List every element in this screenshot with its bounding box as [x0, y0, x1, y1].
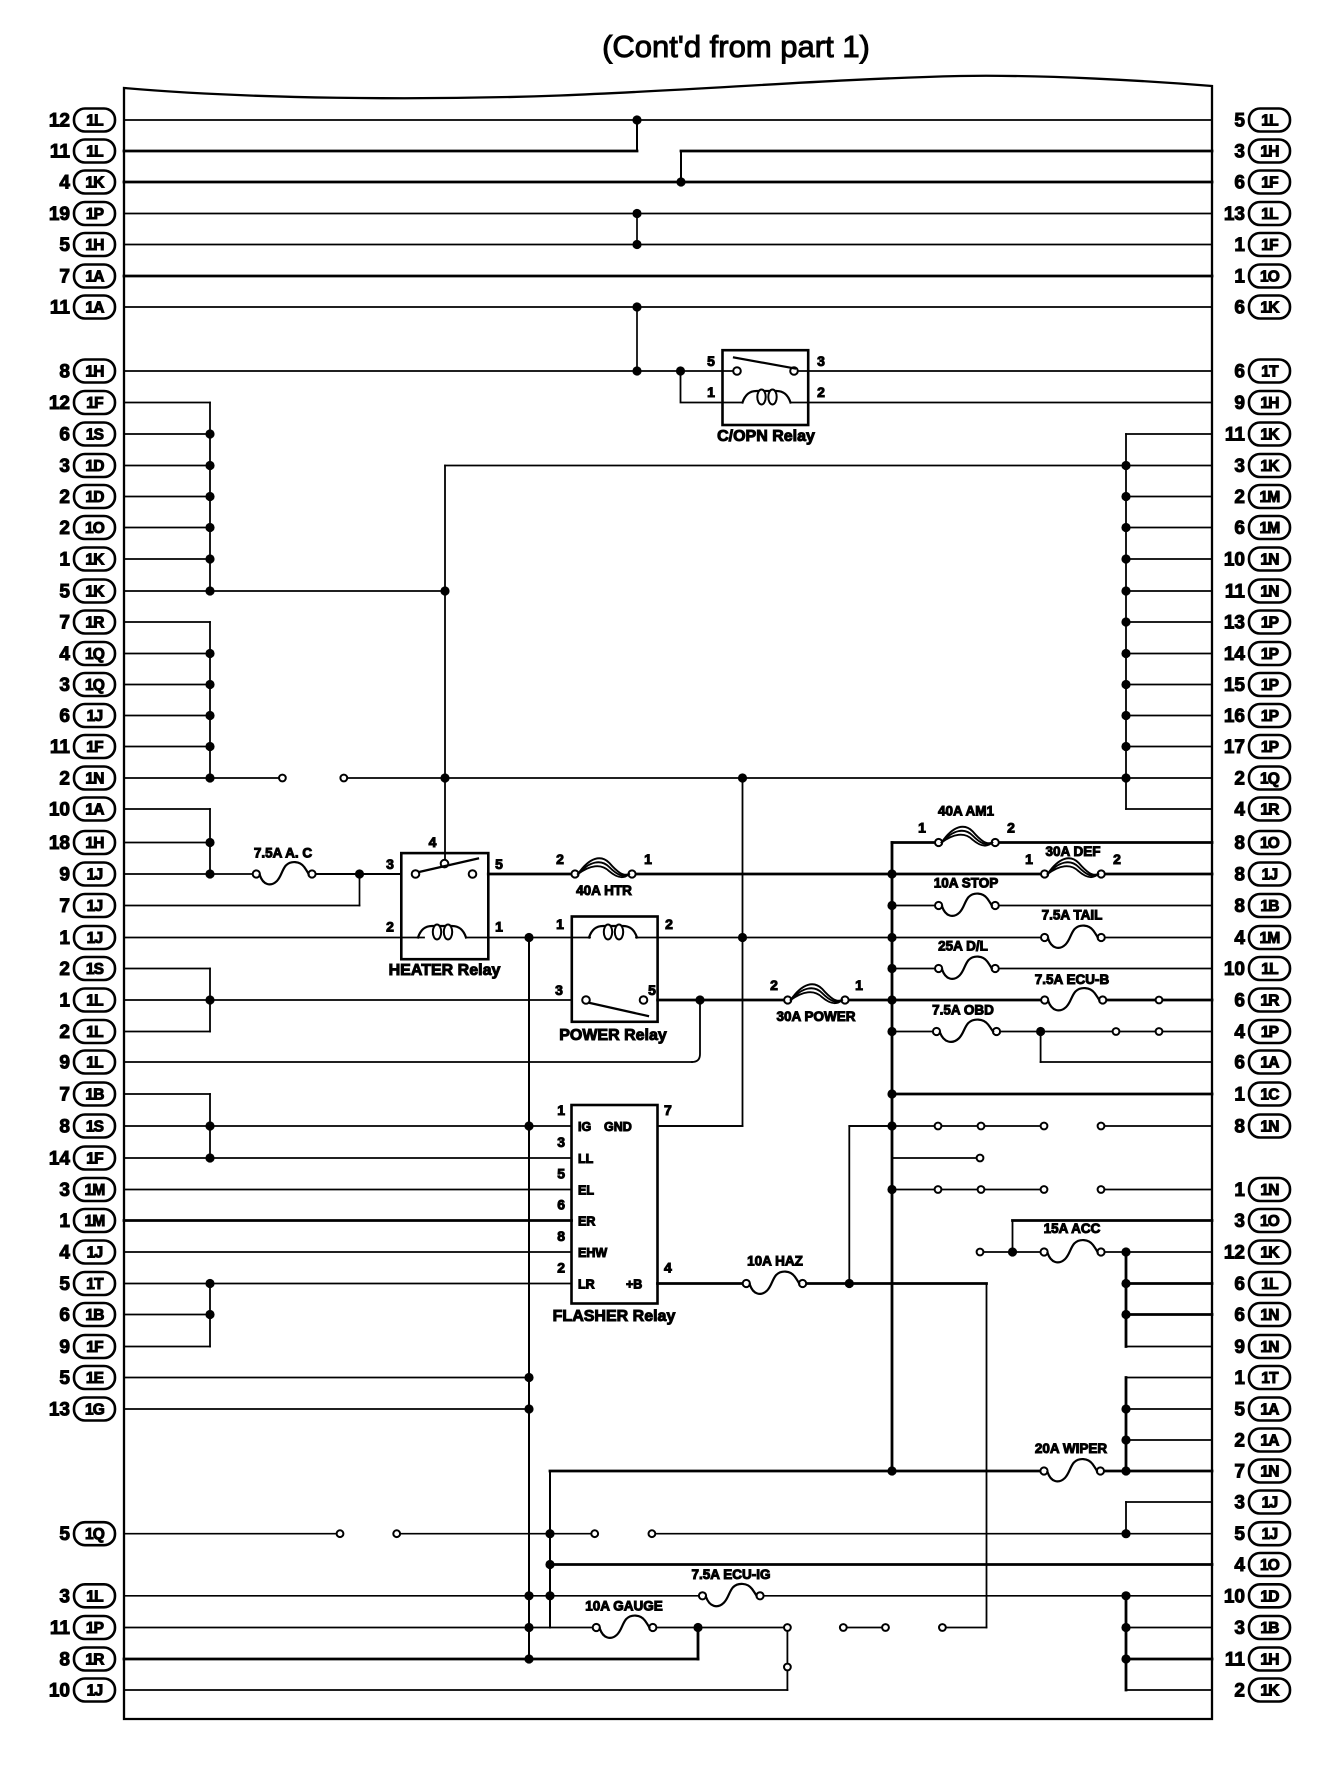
- wire riser 19 1P/5 1H: [636, 214, 638, 245]
- svg-text:1L: 1L: [86, 1024, 103, 1041]
- node 2 1K (right): [1234, 1679, 1290, 1702]
- svg-text:10: 10: [49, 800, 70, 821]
- svg-text:1F: 1F: [86, 739, 103, 756]
- svg-text:1R: 1R: [85, 1652, 104, 1669]
- wire 1 1M to FLASHER pin 6: [124, 1219, 572, 1222]
- svg-text:3: 3: [817, 353, 825, 369]
- connector terminal 6 1R inline: [1156, 997, 1163, 1004]
- svg-text:1M: 1M: [85, 1213, 105, 1230]
- node 13 1G (left): [49, 1398, 115, 1421]
- junction bus210 r37: [205, 1279, 214, 1288]
- connector terminal 1 1N d: [1098, 1186, 1105, 1193]
- wire 19 1P to 13 1L: [124, 213, 1212, 215]
- junction bus892 r27: [887, 964, 896, 973]
- svg-text:1S: 1S: [86, 427, 104, 444]
- junction bus529 r49: [524, 1654, 533, 1663]
- node 5 1Q (left): [59, 1522, 115, 1545]
- svg-text:3: 3: [59, 1586, 70, 1607]
- wire 10 1A to bus 210: [124, 808, 210, 810]
- junction bus210 r20: [205, 742, 214, 751]
- junction bus210 r12: [205, 492, 214, 501]
- wire right bus rows 44-45: [1125, 1502, 1127, 1534]
- junction bus892 r34: [887, 1185, 896, 1194]
- node 6 1M (right): [1234, 516, 1290, 539]
- wire riser 12 1L/11 1L: [636, 120, 638, 151]
- wire 10A STOP feed: [892, 905, 939, 907]
- wire 1 1K to bus 210: [124, 558, 210, 560]
- wire 11 1F to bus 210: [124, 746, 210, 748]
- svg-text:1L: 1L: [86, 993, 103, 1010]
- svg-text:1L: 1L: [1261, 206, 1278, 223]
- wire 20A WIPER to 7 1N: [1100, 1470, 1212, 1473]
- wire 3 1K long wire: [445, 465, 1212, 467]
- junction 19 1P riser: [632, 209, 641, 218]
- fuse 10A HAZ: [743, 1254, 807, 1294]
- svg-text:8: 8: [1234, 1117, 1245, 1138]
- connector terminal 1 1N b: [978, 1186, 985, 1193]
- wire 3 1O right piece: [1013, 1219, 1213, 1222]
- node 11 1F (left): [50, 735, 115, 758]
- junction busR r13: [1121, 523, 1130, 532]
- connector terminal 8 1N d: [1098, 1123, 1105, 1130]
- node 7 1A (left): [59, 265, 115, 288]
- node 1 1L (left): [59, 989, 115, 1012]
- node 10 1D (right): [1224, 1584, 1290, 1607]
- node 3 1Q (left): [59, 673, 115, 696]
- wire C/OPN pin 3 to 6 1T: [808, 370, 1212, 372]
- wire riser 3 1O to ACC row: [1012, 1221, 1014, 1253]
- node 7 1J (left): [59, 894, 115, 917]
- wire 7 1B to bus 210: [124, 1093, 210, 1095]
- junction 9 1J/7 1J: [355, 869, 364, 878]
- svg-text:1T: 1T: [1261, 364, 1279, 381]
- junction bus210 r21: [205, 773, 214, 782]
- svg-text:9: 9: [59, 1053, 70, 1074]
- svg-text:GND: GND: [604, 1120, 632, 1134]
- svg-text:8: 8: [59, 362, 70, 383]
- svg-text:1J: 1J: [87, 898, 103, 915]
- node 8 1O (right): [1234, 831, 1290, 854]
- node 6 1F (right): [1234, 171, 1290, 194]
- wire 1 1T right piece: [1126, 1377, 1212, 1379]
- connector terminal 5 1Q a: [337, 1530, 344, 1537]
- svg-text:5: 5: [1234, 111, 1245, 132]
- wire 5 1T to FLASHER pin 2: [124, 1283, 572, 1285]
- wire riser 11 1A/8 1H: [636, 307, 638, 371]
- node 10 1A (left): [49, 798, 115, 821]
- wire 2 1A right piece: [1126, 1439, 1212, 1441]
- node 1 1T (right): [1234, 1366, 1290, 1389]
- fusible link 30A DEF: [1025, 844, 1121, 878]
- wire bus 550 WIPER to GAUGE: [549, 1471, 551, 1628]
- svg-text:1H: 1H: [1260, 144, 1279, 161]
- svg-text:3: 3: [59, 675, 70, 696]
- svg-text:1: 1: [495, 919, 503, 935]
- junction bus529 r40: [524, 1373, 533, 1382]
- fuse 10A GAUGE: [585, 1599, 663, 1638]
- wire 7.5A TAIL to 4 1M: [1101, 937, 1212, 939]
- junction bus892 r29: [887, 1027, 896, 1036]
- svg-text:4: 4: [664, 1260, 672, 1276]
- svg-text:1: 1: [1025, 851, 1033, 867]
- svg-text:4: 4: [59, 1243, 70, 1264]
- junction bus529 r26: [524, 933, 533, 942]
- wire 5 1K to bus 445: [124, 590, 445, 592]
- node 13 1P (right): [1224, 611, 1290, 634]
- junction bus892 r31: [887, 1089, 896, 1098]
- junction bus892 r28: [887, 995, 896, 1004]
- wire 8 1H to C/OPN pin 5: [124, 370, 723, 372]
- svg-text:C/OPN Relay: C/OPN Relay: [717, 428, 815, 445]
- node 10 1L (right): [1224, 957, 1290, 980]
- svg-text:2: 2: [59, 1022, 70, 1043]
- svg-text:18: 18: [49, 833, 70, 854]
- wire bus 210 seg rows 9-15: [209, 403, 211, 592]
- node 4 1Q (left): [59, 642, 115, 665]
- wire 1 1L to POWER pin 3: [124, 999, 572, 1001]
- svg-text:19: 19: [49, 204, 70, 225]
- node 2 1O (left): [59, 516, 115, 539]
- wire 6 1A right piece: [1041, 1061, 1212, 1063]
- wire 6 1M right piece: [1126, 527, 1212, 529]
- wire 7.5A OBD feed: [892, 1031, 937, 1033]
- node 19 1P (left): [49, 202, 115, 225]
- node 4 1J (left): [59, 1241, 115, 1264]
- svg-text:FLASHER Relay: FLASHER Relay: [553, 1308, 676, 1325]
- svg-text:1K: 1K: [1260, 1683, 1280, 1700]
- svg-text:1D: 1D: [85, 489, 104, 506]
- node 16 1P (right): [1224, 704, 1290, 727]
- wire connector 942 to corner 986: [942, 1627, 986, 1629]
- svg-text:10: 10: [49, 1681, 70, 1702]
- wire 5 1E to bus 529: [124, 1377, 529, 1379]
- wire HEATER pin 1 to POWER pin 1: [488, 937, 572, 939]
- svg-text:1A: 1A: [1260, 1433, 1279, 1450]
- svg-text:1: 1: [918, 820, 926, 836]
- junction bus892 r32: [887, 1121, 896, 1130]
- wire fuse A.C to HEATER pin 3: [312, 873, 401, 875]
- wire 9 1F to bus 210: [124, 1346, 210, 1348]
- wire FLASHER GND pin 7 out: [658, 1125, 743, 1127]
- svg-text:1P: 1P: [1261, 677, 1279, 694]
- wire 7 1A to 1 1O: [124, 275, 1212, 278]
- junction busR r21: [1121, 773, 1130, 782]
- node 7 1R (left): [59, 611, 115, 634]
- svg-text:1: 1: [1234, 1085, 1245, 1106]
- wire right bus rows 10-22: [1125, 434, 1127, 809]
- svg-text:7.5A OBD: 7.5A OBD: [932, 1003, 994, 1018]
- svg-text:1F: 1F: [1261, 237, 1278, 254]
- node 12 1L (left): [49, 109, 115, 132]
- node 11 1P (left): [50, 1616, 115, 1639]
- svg-text:1L: 1L: [86, 1055, 103, 1072]
- svg-text:30A DEF: 30A DEF: [1045, 844, 1100, 859]
- svg-text:1P: 1P: [1261, 1024, 1279, 1041]
- svg-text:11: 11: [50, 298, 71, 319]
- junction busR r38: [1121, 1310, 1130, 1319]
- wire 13 1G to bus 529: [124, 1408, 529, 1410]
- svg-text:10A HAZ: 10A HAZ: [747, 1254, 803, 1269]
- connector terminal GAUGE riser top: [784, 1624, 791, 1631]
- node 13 1L (right): [1224, 202, 1290, 225]
- svg-text:1P: 1P: [1261, 615, 1279, 632]
- node 5 1J (right): [1234, 1522, 1290, 1545]
- wire POWER pin 5 drop to 9 1L: [692, 1000, 700, 1062]
- node 3 1K (right): [1234, 454, 1290, 477]
- wire connector to 6 1R: [1159, 999, 1212, 1002]
- wire 12 1L to 5 1L: [124, 119, 1212, 121]
- wire 11 1P to 10A GAUGE: [124, 1627, 596, 1629]
- wire 2 1M right piece: [1126, 496, 1212, 498]
- svg-text:13: 13: [1224, 204, 1245, 225]
- node 6 1K (right): [1234, 296, 1290, 319]
- junction bus529 r47: [524, 1591, 533, 1600]
- node 15 1P (right): [1224, 673, 1290, 696]
- svg-text:3: 3: [1234, 456, 1245, 477]
- svg-text:2: 2: [1234, 1431, 1245, 1452]
- junction busR r15: [1121, 586, 1130, 595]
- node 1 1F (right): [1234, 233, 1290, 256]
- svg-text:EL: EL: [578, 1184, 594, 1198]
- connector terminal 3 1B pair b: [882, 1624, 889, 1631]
- svg-text:1O: 1O: [1260, 269, 1280, 286]
- junction bus550 r46: [545, 1560, 554, 1569]
- wire 9 1L to corner 700: [124, 1061, 692, 1063]
- svg-text:3: 3: [557, 1134, 565, 1150]
- node 2 1N (left): [59, 767, 115, 790]
- wire POWER pin 2 out: [658, 937, 892, 939]
- node 7 1B (left): [59, 1083, 115, 1106]
- svg-text:1H: 1H: [1260, 1652, 1279, 1669]
- wire 11 1K right piece: [1126, 433, 1212, 435]
- svg-text:1L: 1L: [1261, 113, 1278, 130]
- wire 25A D/L feed: [892, 968, 939, 970]
- svg-text:10A GAUGE: 10A GAUGE: [585, 1599, 663, 1614]
- node 8 1H (left): [59, 360, 115, 383]
- wire connector 652 to 5 1J: [652, 1533, 1212, 1535]
- wire 5 1A right piece: [1126, 1408, 1212, 1410]
- coil of POWER relay: [589, 926, 637, 938]
- wire riser 9 1J/7 1J: [359, 874, 361, 906]
- node 4 1R (right): [1234, 798, 1290, 821]
- wire 6 1S to bus 210: [124, 433, 210, 435]
- wire 2 1K right piece: [1126, 1689, 1212, 1691]
- wire 3 1Q to bus 210: [124, 684, 210, 686]
- svg-text:1R: 1R: [1260, 802, 1279, 819]
- node 3 1B (right): [1234, 1616, 1290, 1639]
- svg-text:40A AM1: 40A AM1: [938, 804, 995, 819]
- wire 40A HTR to 30A DEF: [632, 873, 1045, 876]
- svg-text:8: 8: [1234, 833, 1245, 854]
- svg-text:15: 15: [1224, 675, 1246, 696]
- wire 4 1J to FLASHER pin 8: [124, 1251, 572, 1253]
- node 5 1H (left): [59, 233, 115, 256]
- svg-text:11: 11: [50, 142, 71, 163]
- wire 5 1H to 1 1F: [124, 244, 1212, 246]
- wire 20A WIPER run: [550, 1470, 1044, 1473]
- junction bus210 r19: [205, 711, 214, 720]
- node 11 1A (left): [50, 296, 115, 319]
- svg-text:16: 16: [1224, 706, 1245, 727]
- node 6 1B (left): [59, 1303, 115, 1326]
- node 6 1L (right): [1234, 1272, 1290, 1295]
- svg-text:1J: 1J: [1262, 1495, 1278, 1512]
- junction bus210 r32: [205, 1121, 214, 1130]
- wire 11 1L to junction 637: [124, 150, 637, 153]
- svg-text:1H: 1H: [85, 364, 104, 381]
- node 12 1K (right): [1224, 1241, 1290, 1264]
- svg-text:1K: 1K: [85, 584, 105, 601]
- svg-text:1B: 1B: [1260, 898, 1279, 915]
- junction bus210 r15: [205, 586, 214, 595]
- wire drop OBD to 6 1A: [1040, 1032, 1042, 1063]
- svg-text:10: 10: [1224, 959, 1245, 980]
- junction bus892 r26: [887, 933, 896, 942]
- svg-text:3: 3: [59, 456, 70, 477]
- svg-text:8: 8: [59, 1650, 70, 1671]
- svg-text:6: 6: [59, 706, 70, 727]
- node 6 1S (left): [59, 423, 115, 446]
- node 9 1J (left): [59, 863, 115, 886]
- connector terminal 5 1Q d: [649, 1530, 656, 1537]
- coil of HEATER relay: [418, 926, 466, 938]
- svg-text:1S: 1S: [86, 1119, 104, 1136]
- junction bus529 r32: [524, 1121, 533, 1130]
- wire 3 1L to 7.5A ECU-IG: [124, 1595, 703, 1597]
- svg-text:1P: 1P: [86, 1620, 104, 1637]
- svg-text:9: 9: [59, 865, 70, 886]
- node 1 1J (left): [59, 926, 115, 949]
- svg-text:1J: 1J: [1262, 867, 1278, 884]
- junction bus210 r38: [205, 1310, 214, 1319]
- svg-text:2: 2: [1007, 820, 1015, 836]
- svg-text:1: 1: [644, 851, 652, 867]
- svg-text:1P: 1P: [1261, 739, 1279, 756]
- svg-text:1G: 1G: [85, 1402, 105, 1419]
- svg-text:10A STOP: 10A STOP: [934, 876, 999, 891]
- svg-text:1L: 1L: [86, 113, 103, 130]
- wire floating connector pair: [843, 1627, 885, 1629]
- fuse 7.5A ECU-IG: [691, 1567, 770, 1606]
- wire 4 1Q to bus 210: [124, 653, 210, 655]
- junction busR r36: [1121, 1247, 1130, 1256]
- wire 7.5A TAIL feed: [892, 937, 1045, 939]
- svg-text:LR: LR: [578, 1278, 595, 1292]
- svg-text:1N: 1N: [1260, 1464, 1279, 1481]
- wire 14 1F to FLASHER pin 3: [124, 1157, 572, 1159]
- junction busR r37: [1121, 1279, 1130, 1288]
- wire 12 1F to bus 210: [124, 402, 210, 404]
- wire 2 1N connector to 2 1Q: [344, 777, 1212, 779]
- fusible link 40A AM1: [918, 804, 1015, 847]
- junction 12 1L riser: [632, 115, 641, 124]
- wire 14 1P right piece: [1126, 653, 1212, 655]
- wire bus 210 seg rows 37-39: [209, 1284, 211, 1347]
- svg-text:1: 1: [59, 928, 70, 949]
- wire right bus rows 36-39: [1125, 1252, 1128, 1347]
- svg-text:1: 1: [1234, 267, 1245, 288]
- svg-text:1H: 1H: [85, 237, 104, 254]
- junction bus210 r33: [205, 1153, 214, 1162]
- svg-text:3: 3: [59, 1180, 70, 1201]
- svg-text:1M: 1M: [1260, 520, 1280, 537]
- svg-text:1J: 1J: [87, 1245, 103, 1262]
- wire 8 1S to FLASHER pin 1: [124, 1125, 572, 1127]
- svg-text:1A: 1A: [85, 300, 104, 317]
- wire riser 8 1R to GAUGE row: [697, 1628, 700, 1660]
- wire 2 1D to bus 210: [124, 496, 210, 498]
- node 10 1J (left): [49, 1679, 115, 1702]
- svg-text:1J: 1J: [87, 930, 103, 947]
- wire 7 1R to bus 210: [124, 621, 210, 623]
- wire riser 3 1H/4 1K: [680, 151, 682, 182]
- svg-text:13: 13: [49, 1400, 70, 1421]
- svg-text:6: 6: [557, 1197, 565, 1213]
- wire 6 1J to bus 210: [124, 715, 210, 717]
- junction bus742 r21: [738, 773, 747, 782]
- wire 8 1N connector run: [892, 1125, 1044, 1127]
- node 3 1O (right): [1234, 1209, 1290, 1232]
- connector terminal 8 1N c: [1041, 1123, 1048, 1130]
- wire 8 1N elbow drop: [849, 1126, 892, 1284]
- wire 4 1R right piece: [1126, 808, 1212, 810]
- svg-text:1Q: 1Q: [85, 1526, 105, 1543]
- border frame with wavy top: [124, 76, 1212, 1719]
- svg-text:7: 7: [59, 613, 70, 634]
- svg-text:2: 2: [59, 518, 70, 539]
- svg-text:1D: 1D: [1260, 1588, 1279, 1605]
- svg-text:7.5A ECU-IG: 7.5A ECU-IG: [691, 1567, 770, 1582]
- wire 8 1R to corner 698: [124, 1658, 698, 1661]
- svg-text:3: 3: [386, 856, 394, 872]
- node 9 1H (right): [1234, 391, 1290, 414]
- svg-text:1N: 1N: [1260, 1119, 1279, 1136]
- svg-text:6: 6: [1234, 1305, 1245, 1326]
- wire 13 1P right piece: [1126, 621, 1212, 623]
- svg-text:1M: 1M: [1260, 930, 1280, 947]
- wire 3 1B right piece: [1126, 1627, 1212, 1629]
- junction bus210 r14: [205, 554, 214, 563]
- wire 18 1H to bus 210: [124, 842, 210, 844]
- junction busR r18: [1121, 680, 1130, 689]
- node 5 1L (right): [1234, 109, 1290, 132]
- svg-text:20A WIPER: 20A WIPER: [1035, 1441, 1108, 1456]
- svg-text:1K: 1K: [1260, 458, 1280, 475]
- node 8 1S (left): [59, 1115, 115, 1138]
- svg-text:2: 2: [557, 1260, 565, 1276]
- junction ACC row 1012: [1008, 1247, 1017, 1256]
- svg-text:30A POWER: 30A POWER: [776, 1009, 855, 1024]
- node 7 1N (right): [1234, 1460, 1290, 1483]
- connector terminal 12 1K end: [977, 1249, 984, 1256]
- wire branch to connector 980: [892, 1157, 980, 1159]
- wire C/OPN pin 2 to 9 1H: [808, 402, 1212, 404]
- svg-text:10: 10: [1224, 550, 1245, 571]
- svg-text:1L: 1L: [86, 144, 103, 161]
- svg-text:1F: 1F: [86, 1339, 103, 1356]
- svg-text:1A: 1A: [85, 802, 104, 819]
- junction bus210 r13: [205, 523, 214, 532]
- junction bus529 r48: [524, 1623, 533, 1632]
- wire 1 1C from bus 892: [892, 1093, 1212, 1096]
- wire connector 397 to 595: [397, 1533, 595, 1535]
- svg-text:1F: 1F: [86, 1151, 103, 1168]
- svg-text:1N: 1N: [1260, 584, 1279, 601]
- junction bus210 r18: [205, 680, 214, 689]
- svg-text:1Q: 1Q: [85, 677, 105, 694]
- svg-text:1O: 1O: [85, 520, 105, 537]
- svg-text:7: 7: [664, 1102, 672, 1118]
